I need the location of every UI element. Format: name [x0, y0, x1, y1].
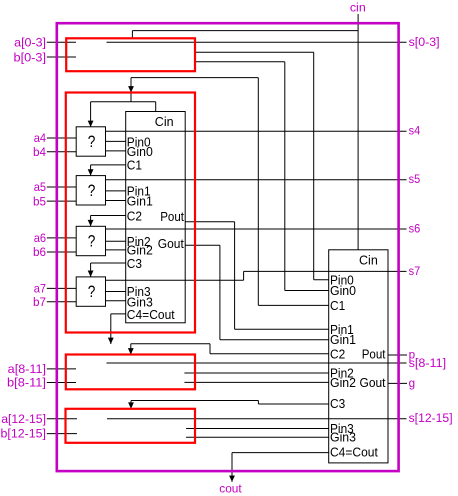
svg-text:Gin1: Gin1: [127, 194, 153, 209]
svg-text:Cin: Cin: [155, 114, 174, 129]
svg-text:s[8-11]: s[8-11]: [409, 356, 447, 370]
svg-text:a4: a4: [34, 131, 46, 145]
svg-text:cout: cout: [219, 481, 242, 495]
svg-text:C1: C1: [330, 298, 345, 313]
svg-text:b[8-11]: b[8-11]: [7, 376, 46, 390]
svg-text:s[12-15]: s[12-15]: [409, 411, 453, 425]
svg-text:Gin1: Gin1: [330, 332, 356, 347]
svg-text:?: ?: [88, 181, 96, 200]
svg-text:C2: C2: [330, 346, 345, 361]
svg-text:C4=Cout: C4=Cout: [330, 445, 378, 460]
svg-text:s7: s7: [409, 264, 421, 278]
svg-text:s6: s6: [409, 221, 421, 235]
svg-text:b4: b4: [33, 145, 46, 159]
svg-text:b5: b5: [33, 194, 46, 208]
svg-text:a[12-15]: a[12-15]: [1, 412, 46, 426]
svg-text:b7: b7: [33, 295, 46, 309]
svg-text:b[12-15]: b[12-15]: [1, 427, 46, 441]
svg-text:C3: C3: [127, 256, 142, 271]
svg-text:?: ?: [88, 232, 96, 251]
svg-text:g: g: [409, 376, 416, 390]
svg-text:Gin0: Gin0: [330, 283, 356, 298]
svg-text:Cin: Cin: [359, 253, 378, 268]
svg-text:C4=Cout: C4=Cout: [127, 307, 175, 322]
svg-text:Pout: Pout: [362, 347, 386, 362]
svg-text:a6: a6: [34, 231, 46, 245]
svg-text:?: ?: [88, 282, 96, 301]
svg-text:a[8-11]: a[8-11]: [8, 362, 46, 376]
svg-text:b[0-3]: b[0-3]: [14, 50, 47, 64]
svg-text:s[0-3]: s[0-3]: [409, 35, 440, 49]
svg-text:C3: C3: [330, 396, 345, 411]
svg-text:Pout: Pout: [160, 209, 184, 224]
svg-text:a[0-3]: a[0-3]: [14, 36, 46, 50]
svg-text:cin: cin: [350, 1, 366, 15]
svg-text:a5: a5: [34, 180, 46, 194]
svg-text:?: ?: [88, 132, 96, 151]
svg-text:C2: C2: [127, 209, 142, 224]
svg-text:Gin3: Gin3: [330, 430, 356, 445]
svg-text:Gin2: Gin2: [330, 375, 356, 390]
svg-text:s5: s5: [409, 172, 421, 186]
svg-text:C1: C1: [127, 157, 142, 172]
svg-text:s4: s4: [409, 124, 421, 138]
svg-text:a7: a7: [34, 282, 46, 296]
svg-text:b6: b6: [33, 245, 46, 259]
svg-text:Gout: Gout: [360, 375, 386, 390]
svg-text:Gout: Gout: [158, 236, 184, 251]
